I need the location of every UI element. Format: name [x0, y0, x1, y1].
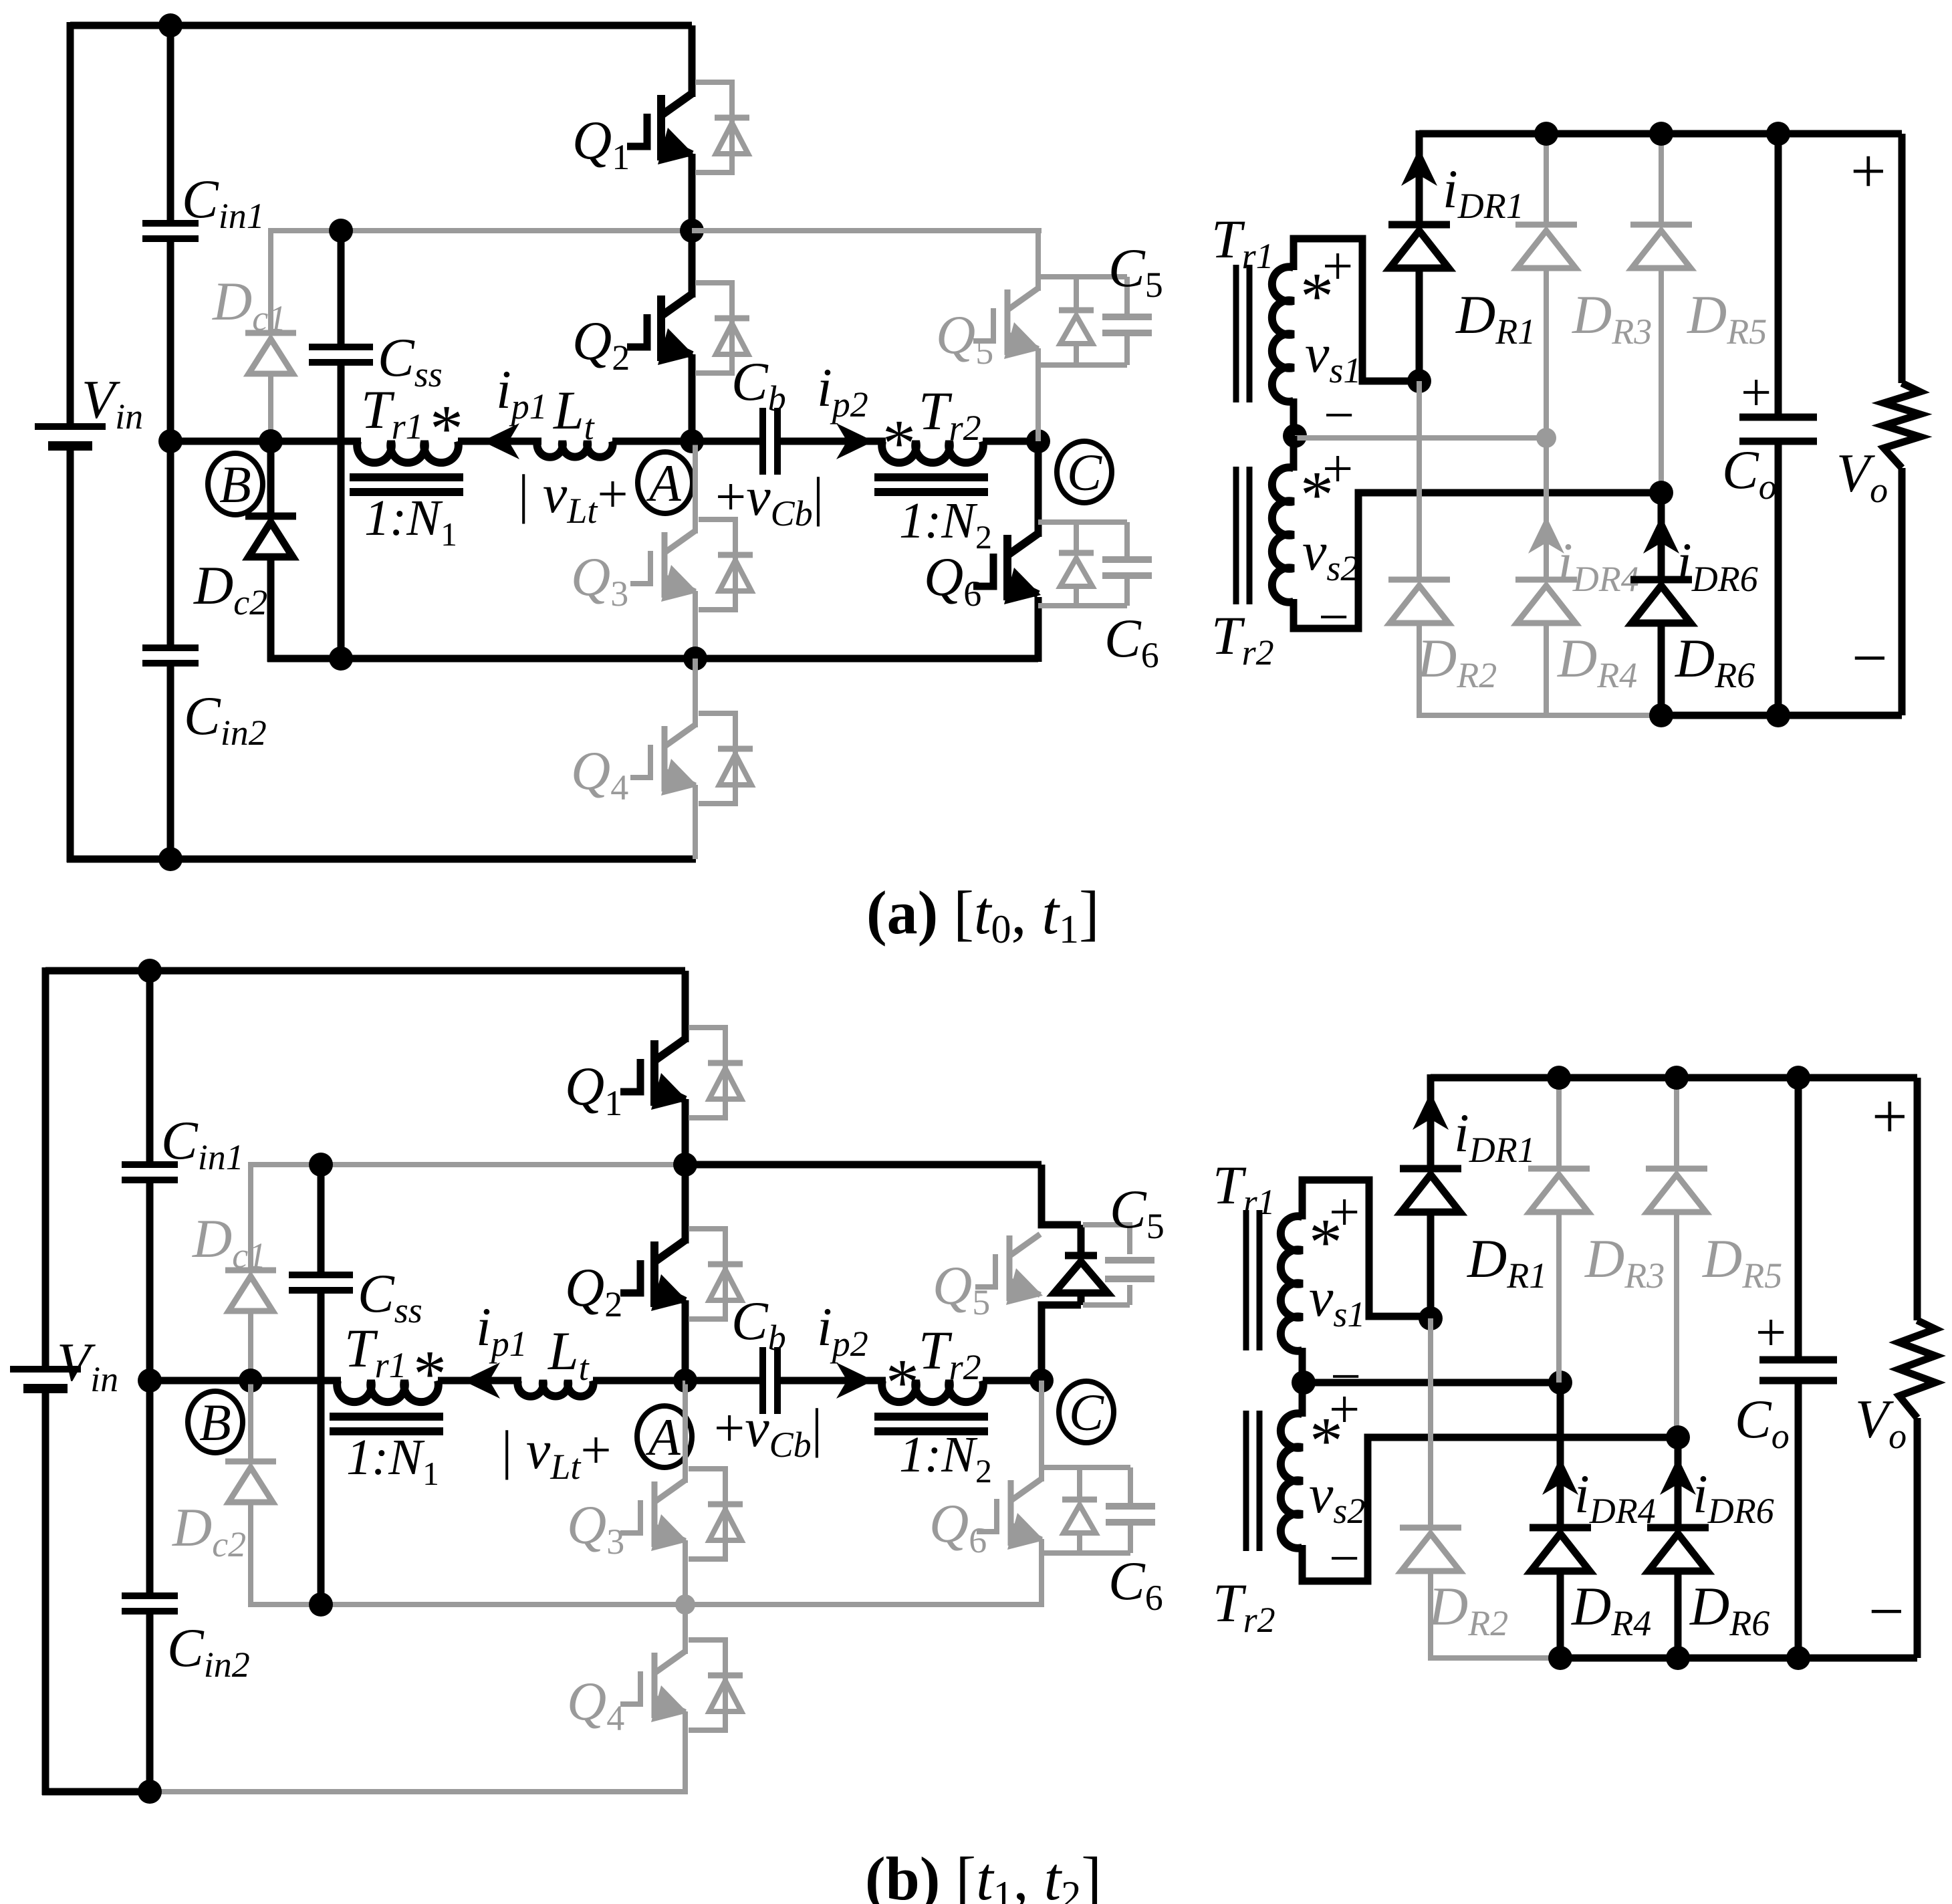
antiparallel diode of Q2 (a) [695, 283, 749, 373]
polarity star vs1 (b) [1309, 1205, 1342, 1279]
svg-text:| vLt+: | vLt+ [518, 463, 628, 531]
diode Dc1 (b) [225, 1270, 276, 1311]
transistor Q3 (b) [620, 1480, 688, 1551]
label 1:N1 (a) [364, 490, 457, 553]
node: Q1-Q2 midpoint (a) [680, 219, 704, 243]
caption (a) [866, 878, 1100, 951]
svg-text:Q6: Q6 [929, 1493, 987, 1560]
wire: Q1 emitter (b) [682, 1099, 689, 1165]
wire: Tr2-C segment (a) [983, 438, 1038, 445]
label Q3 (b) [567, 1494, 624, 1562]
node: DR5 anode junction (b) [1666, 1425, 1690, 1449]
snubber diode and capacitor C6 of Q6 (b) [1042, 1467, 1155, 1553]
current arrow ip2 (a) [836, 423, 874, 459]
label vs1 (b) [1309, 1267, 1365, 1334]
svg-text:Tr2: Tr2 [1213, 1572, 1275, 1640]
diode DR6 (b) [1647, 1528, 1709, 1571]
wire: gray clamp rail (a) [271, 228, 692, 233]
wire: DR5 cathode column (a) [1659, 134, 1664, 225]
svg-text:−: − [1852, 622, 1888, 693]
wire: Q3 collector (b) [683, 1381, 688, 1483]
label Cb (a) [731, 351, 786, 419]
transistor Q4 (a) [630, 725, 698, 796]
svg-text:Q5: Q5 [933, 1255, 990, 1322]
svg-text:Q6: Q6 [924, 546, 981, 614]
wire: Q2 collector (a) [689, 231, 696, 297]
wire: Dc2 bottom wire (a) [267, 554, 275, 662]
svg-text:DR6: DR6 [1675, 628, 1755, 695]
svg-text:Tr2: Tr2 [919, 1320, 981, 1387]
node B (a) [208, 453, 263, 515]
svg-text:1:N1: 1:N1 [346, 1429, 439, 1492]
svg-text:iDR4: iDR4 [1574, 1463, 1656, 1531]
label 1:N2 (a) [899, 493, 992, 556]
node: Cin midpoint junction (a) [158, 429, 182, 453]
node: center tap (b) [1292, 1371, 1316, 1395]
svg-text:Tr2: Tr2 [919, 380, 981, 448]
wire: Css top wire (b) [318, 1165, 325, 1275]
capacitor Co (b) [1759, 1360, 1837, 1381]
current arrow ip2 (b) [836, 1362, 874, 1399]
svg-text:−: − [1868, 1576, 1905, 1647]
transistor Q5 (a) [973, 288, 1041, 359]
node C junction dot (b) [1029, 1368, 1054, 1393]
inductor Lt (b) [517, 1381, 593, 1397]
label plus vs1 (a) [1322, 235, 1353, 296]
transformer Tr2 primary winding (b) [882, 1381, 983, 1402]
current arrow iDR6 (a) [1643, 516, 1679, 554]
svg-text:iDR6: iDR6 [1693, 1463, 1774, 1531]
wire: DR5 anode column (a) [1659, 267, 1664, 493]
svg-text:Q2: Q2 [572, 310, 630, 378]
diode DR5 (b) [1646, 1169, 1707, 1212]
svg-text:C6: C6 [1108, 1550, 1163, 1618]
diode DR1 (a) [1388, 225, 1450, 268]
transistor Q1 (b) [620, 1039, 688, 1110]
transistor Q1 (a) [627, 94, 695, 164]
wire: Q2 emitter (a) [689, 354, 696, 441]
antiparallel diode of Q3 (b) [689, 1469, 743, 1559]
node C (b) [1059, 1381, 1114, 1443]
wire: Css bottom wire (a) [338, 362, 345, 659]
svg-text:DR4: DR4 [1571, 1576, 1651, 1643]
wire: Q6 emitter (a) [1035, 597, 1042, 662]
wire: Q6 collector (b) [1039, 1381, 1044, 1481]
label Tr1 secondary (b) [1213, 1155, 1275, 1222]
wire: Vo bottom column (a) [1899, 468, 1906, 715]
svg-text:Dc2: Dc2 [172, 1497, 246, 1564]
wire: Cin column middle (b) [146, 1180, 154, 1596]
label minus vs2 (b) [1329, 1528, 1360, 1588]
wire: DR5 cathode column (b) [1674, 1078, 1679, 1169]
wire: DR1 anode column (b) [1427, 1211, 1435, 1318]
transformer Tr2 core (a) [874, 477, 988, 492]
label vs2 (a) [1302, 521, 1358, 588]
node: center tap (a) [1283, 424, 1307, 448]
node: center tap to DR4 junction (b) [1548, 1371, 1572, 1395]
label DR4 (b) [1571, 1576, 1651, 1643]
wire: DR6 cathode column (a) [1658, 493, 1665, 580]
resistor Vo load (a) [1884, 383, 1920, 468]
label minus Vo (a) [1852, 622, 1888, 693]
label vCb (b) [714, 1397, 822, 1465]
wire: DR1 anode column (a) [1416, 267, 1423, 381]
current arrow ip1 (b) [463, 1362, 500, 1399]
node: rectifier top junction 2 (a) [1649, 122, 1673, 146]
label Lt (a) [553, 380, 596, 447]
node: DR1 anode junction (b) [1419, 1306, 1443, 1330]
svg-text:Q4: Q4 [567, 1671, 624, 1738]
label ip2 (a) [817, 357, 868, 425]
svg-text:+: + [1329, 1379, 1360, 1439]
current arrow iDR4 (a) [1528, 516, 1564, 554]
label plus Co (a) [1741, 362, 1772, 423]
label Tr2 primary (b) [919, 1320, 981, 1387]
label Q1 (b) [565, 1056, 622, 1123]
wire: Cin column lower (a) [167, 663, 174, 859]
polarity star Tr2 primary (b) [886, 1345, 919, 1419]
label iDR4 (b) [1574, 1463, 1656, 1531]
node: DR5 anode junction (a) [1649, 481, 1673, 505]
transistor Q2 (a) [627, 294, 695, 365]
svg-text:+: + [1850, 136, 1886, 207]
current arrow iDR1 (a) [1401, 148, 1437, 186]
svg-text:Vo: Vo [1836, 443, 1888, 510]
wire: DR5 anode column (b) [1674, 1211, 1679, 1437]
node A junction dot (b) [673, 1368, 697, 1393]
polarity star vs1 (a) [1300, 259, 1334, 333]
label Css (b) [358, 1263, 422, 1330]
polarity star Tr2 primary (a) [882, 406, 916, 480]
label iDR4 (a) [1558, 531, 1639, 599]
wire: left rail lower (a) [67, 446, 74, 862]
label Vin (a) [82, 369, 143, 437]
svg-text:Cin2: Cin2 [184, 685, 267, 753]
transistor Q6 (b) [977, 1479, 1044, 1550]
wire: Dc2 top wire (a) [267, 441, 275, 516]
label DR6 (a) [1675, 628, 1755, 695]
svg-text:Cin2: Cin2 [167, 1617, 250, 1685]
polarity star vs2 (a) [1300, 457, 1334, 531]
node: Css top junction (b) [309, 1153, 333, 1177]
svg-text:Lt: Lt [547, 1320, 590, 1388]
label Cb (b) [731, 1290, 786, 1358]
snubber diode and capacitor C5 of Q5 (a) [1038, 277, 1152, 365]
wire: Dc2 bottom wire (b) [251, 1500, 688, 1604]
current arrow iDR1 (b) [1413, 1092, 1449, 1130]
wire: Q4 collector (a) [693, 659, 698, 727]
label Tr2 secondary (a) [1211, 605, 1274, 673]
svg-text:iDR6: iDR6 [1677, 531, 1758, 599]
diode DR5 (a) [1630, 225, 1692, 268]
wire: DR4 anode column (b) [1557, 1570, 1564, 1658]
capacitor Cb (b) [763, 1347, 777, 1414]
wire: Dc1 anode wire (b) [248, 1162, 253, 1270]
svg-text:C6: C6 [1104, 608, 1159, 675]
svg-text:Q4: Q4 [571, 740, 628, 808]
wire: Q3 collector (a) [693, 441, 698, 533]
inductor Lt (a) [537, 441, 612, 457]
diode Dc1 (a) [245, 333, 296, 374]
capacitor Cin2 (b) [122, 1596, 178, 1611]
wire: DR6 cathode column (b) [1675, 1437, 1682, 1528]
svg-text:+: + [1322, 438, 1353, 499]
svg-text:DR6: DR6 [1689, 1576, 1770, 1643]
wire: Cin column upper (b) [146, 971, 154, 1165]
svg-text:DR3: DR3 [1584, 1228, 1665, 1296]
transformer Tr1 core (b) [330, 1417, 443, 1431]
wire: clamp return rail right (b) [685, 1539, 1042, 1604]
svg-text:Dc2: Dc2 [193, 555, 267, 622]
diode DR4 (a) [1515, 580, 1577, 623]
diode DR3 (b) [1528, 1169, 1590, 1212]
svg-text:Co: Co [1735, 1389, 1790, 1456]
transformer Tr1 secondary core (a) [1236, 265, 1249, 402]
wire: DR3 anode column (b) [1556, 1211, 1562, 1383]
label plus Vo (b) [1872, 1081, 1908, 1152]
wire: rectifier top rail (b) [1431, 1074, 1917, 1082]
svg-text:Co: Co [1722, 439, 1777, 507]
label Vo (b) [1855, 1389, 1907, 1456]
wire: center tap rail (b) [1304, 1379, 1560, 1387]
wire: rectifier bottom rail (b) [1560, 1655, 1917, 1662]
label Dc2 (b) [172, 1497, 246, 1564]
label Tr1 primary (a) [361, 379, 424, 447]
diode DR1 (b) [1400, 1169, 1461, 1212]
winding vs2 (a) [1272, 467, 1294, 602]
wire: vs2 top stub (a) [1290, 436, 1298, 471]
wire: DR1 cathode column (a) [1416, 130, 1423, 225]
wire: vs2 bottom elbow (b) [1302, 1437, 1681, 1581]
transistor Q2 (b) [620, 1240, 688, 1311]
label Cin2 (b) [167, 1617, 250, 1685]
wire: main rail Tr1-Lt segment (b) [438, 1377, 521, 1385]
svg-text:DR5: DR5 [1702, 1228, 1782, 1296]
node: rectifier top junction 3 (b) [1786, 1066, 1810, 1090]
label Dc1 (b) [192, 1208, 266, 1276]
snubber diode and capacitor C6 of Q6 (a) [1038, 522, 1152, 606]
battery Vin (a) [35, 427, 106, 446]
antiparallel diode of Q2 (b) [689, 1229, 743, 1319]
capacitor Co (a) [1739, 417, 1817, 441]
svg-text:Q5: Q5 [936, 304, 993, 372]
capacitor Cin2 (a) [142, 648, 199, 663]
label iDR1 (a) [1443, 158, 1524, 226]
polarity star vs2 (b) [1310, 1403, 1343, 1477]
wire: clamp rail to Q5 (a) [692, 228, 1042, 233]
svg-text:Vin: Vin [57, 1332, 118, 1399]
svg-text:Cb: Cb [731, 1290, 786, 1358]
node: Css top junction (a) [329, 219, 353, 243]
wire: Vo bottom column (b) [1914, 1418, 1921, 1658]
svg-text:iDR4: iDR4 [1558, 531, 1639, 599]
label plus vs2 (a) [1322, 438, 1353, 499]
label iDR1 (b) [1454, 1102, 1536, 1170]
wire: DR6 anode column (b) [1675, 1570, 1682, 1658]
node: rectifier top junction 1 (b) [1547, 1066, 1571, 1090]
svg-text:DR3: DR3 [1572, 284, 1652, 352]
svg-text:DR1: DR1 [1455, 284, 1536, 352]
wire: Vo top column (a) [1899, 134, 1906, 383]
wire: top rail (a) [70, 22, 692, 29]
node: Css bottom junction (b) [309, 1592, 333, 1617]
label Co (a) [1722, 439, 1777, 507]
svg-text:vs1: vs1 [1305, 323, 1361, 390]
wire: Q4 emitter (a) [693, 785, 698, 859]
label Q6 (a) [924, 546, 981, 614]
label plus Vo (a) [1850, 136, 1886, 207]
svg-text:ip2: ip2 [817, 1296, 868, 1364]
capacitor Cin1 (b) [122, 1165, 178, 1180]
wire: Q5 emitter (a) [1035, 348, 1041, 441]
wire: rectifier bottom rail (a) [1661, 712, 1902, 719]
svg-text:ip1: ip1 [496, 359, 547, 427]
node: DR1 anode junction (a) [1407, 369, 1431, 393]
winding vs1 (b) [1281, 1216, 1302, 1351]
node: rectifier bottom junction 3 (b) [1786, 1646, 1810, 1670]
label plus Co (b) [1755, 1302, 1786, 1362]
transformer Tr2 secondary core (b) [1246, 1411, 1259, 1551]
wire: Q5 emitter black path (b) [1042, 1305, 1081, 1381]
wire: DR6 anode column (a) [1658, 622, 1665, 715]
svg-text:C5: C5 [1110, 1179, 1165, 1246]
capacitor Css (a) [309, 347, 373, 362]
node: bottom-left junction (a) [158, 847, 182, 871]
wire: main rail Lt-A segment (b) [593, 1377, 685, 1385]
wire: Co bottom column (b) [1795, 1381, 1802, 1658]
wire: Q6 collector (a) [1035, 441, 1042, 537]
label minus vs2 (a) [1318, 586, 1349, 647]
diode Dc2 (a) [245, 516, 296, 557]
antiparallel diode of Q4 (a) [699, 713, 753, 804]
svg-text:Q3: Q3 [567, 1494, 624, 1562]
node: rectifier bottom junction 1 (a) [1649, 703, 1673, 727]
wire: DR4 cathode column (a) [1544, 438, 1549, 580]
svg-text:1:N2: 1:N2 [899, 1427, 992, 1490]
wire: Q1 collector (a) [689, 25, 696, 97]
label 1:N2 (b) [899, 1427, 992, 1490]
wire: DR3 cathode column (b) [1556, 1078, 1562, 1169]
label DR5 (a) [1687, 284, 1767, 352]
label Cin1 (b) [161, 1110, 244, 1177]
wire: gray clamp rail (b) [251, 1162, 685, 1167]
label iDR6 (a) [1677, 531, 1758, 599]
label DR2 (b) [1428, 1576, 1508, 1643]
svg-text:DR2: DR2 [1417, 628, 1497, 695]
transistor Q5 (b) [975, 1234, 1043, 1305]
label Tr1 secondary (a) [1211, 209, 1274, 276]
diode DR2 (a) [1388, 580, 1450, 623]
wire: vs1 top elbow (a) [1294, 239, 1419, 381]
transformer Tr2 secondary core (a) [1236, 467, 1249, 604]
wire: A-Cb segment (a) [692, 438, 759, 445]
label Cin2 (a) [184, 685, 267, 753]
winding vs2 (b) [1281, 1413, 1302, 1548]
label C5 (b) [1110, 1179, 1165, 1246]
svg-text:1:N1: 1:N1 [364, 490, 457, 553]
label Css (a) [378, 327, 443, 394]
svg-text:(b) [t1, t2]: (b) [t1, t2] [865, 1844, 1102, 1904]
wire: Css top wire (a) [338, 231, 345, 347]
label vLt (b) [501, 1419, 612, 1487]
svg-text:Tr1: Tr1 [1211, 209, 1274, 276]
label DR5 (b) [1702, 1228, 1782, 1296]
label Tr2 secondary (b) [1213, 1572, 1275, 1640]
label Q5 (b) [933, 1255, 990, 1322]
svg-text:B: B [199, 1393, 231, 1451]
label Q4 (b) [567, 1671, 624, 1738]
node: Css bottom junction (a) [329, 646, 353, 671]
svg-text:−: − [1318, 586, 1349, 647]
svg-text:C5: C5 [1108, 237, 1163, 305]
wire: top rail (b) [45, 967, 685, 975]
wire: DR1 cathode column (b) [1427, 1074, 1435, 1169]
wire: Dc1 anode wire (a) [268, 228, 273, 333]
wire: left rail upper (a) [67, 22, 74, 427]
polarity star Tr1 primary (b) [413, 1336, 447, 1411]
node: Cin midpoint junction (b) [138, 1368, 162, 1393]
label Tr2 primary (a) [919, 380, 981, 448]
node A junction dot (a) [680, 429, 704, 453]
wire: Q2 emitter (b) [682, 1300, 689, 1381]
wire: main rail B segment (a) [170, 438, 361, 445]
svg-text:iDR1: iDR1 [1443, 158, 1524, 226]
svg-text:A: A [646, 454, 681, 512]
antiparallel diode of Q4 (b) [689, 1640, 743, 1730]
wire: main rail B segment (b) [150, 1377, 341, 1385]
label Q6 (b) [929, 1493, 987, 1560]
node C (a) [1057, 441, 1112, 503]
node: rectifier top junction 2 (b) [1665, 1066, 1689, 1090]
label vLt (a) [518, 463, 628, 531]
transformer Tr1 primary winding (b) [337, 1381, 439, 1402]
label plus vs1 (b) [1329, 1181, 1360, 1242]
svg-text:Dc1: Dc1 [212, 271, 286, 338]
label Vin (b) [57, 1332, 118, 1399]
transformer Tr2 core (b) [874, 1417, 988, 1431]
svg-text:C: C [1067, 443, 1102, 501]
svg-text:*: * [430, 391, 463, 465]
wire: Q5 collector (a) [1035, 231, 1041, 291]
wire: Cin column upper (a) [167, 25, 174, 223]
label C5 (a) [1108, 237, 1163, 305]
svg-text:+vCb|: +vCb| [714, 1397, 822, 1465]
wire: Cin column middle (a) [167, 239, 174, 648]
wire: Co bottom column (a) [1775, 441, 1782, 715]
node: bottom-left junction (b) [138, 1780, 162, 1804]
label Dc1 (a) [212, 271, 286, 338]
capacitor C5 gray loop (b) [1083, 1225, 1154, 1305]
svg-text:Tr2: Tr2 [1211, 605, 1274, 673]
label Q3 (a) [571, 546, 628, 614]
svg-text:Dc1: Dc1 [192, 1208, 266, 1276]
label DR1 (a) [1455, 284, 1536, 352]
wire: DR2 cathode column (b) [1428, 1318, 1433, 1528]
transistor Q4 (b) [620, 1651, 688, 1722]
label Dc2 (a) [193, 555, 267, 622]
wire: Tr2-C segment (b) [983, 1377, 1042, 1385]
wire: DR3 anode column (a) [1544, 267, 1549, 438]
transformer Tr1 core (a) [350, 477, 463, 492]
wire: Q4 collector (b) [683, 1604, 688, 1654]
svg-text:Tr1: Tr1 [1213, 1155, 1275, 1222]
capacitor Cb (a) [763, 408, 777, 475]
label ip1 (a) [496, 359, 547, 427]
capacitor Css (b) [289, 1275, 353, 1290]
label ip1 (b) [476, 1296, 527, 1364]
wire: DR4 anode column (a) [1544, 622, 1549, 715]
transistor Q3 (a) [630, 531, 698, 602]
